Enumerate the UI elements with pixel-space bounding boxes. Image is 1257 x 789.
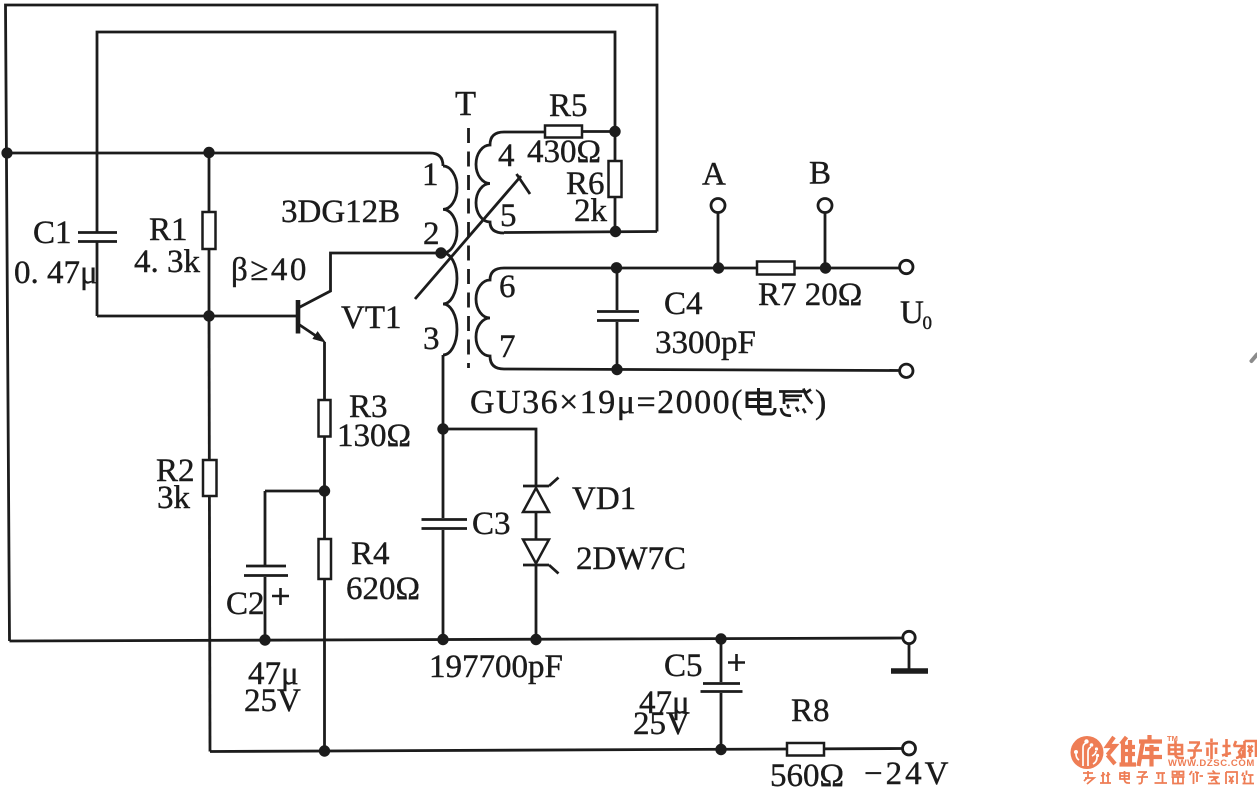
scan speck at right edge (1252, 355, 1257, 362)
watermark char wei (1108, 737, 1137, 766)
resistor R4 (319, 539, 332, 579)
wire: C2 vertical (264, 491, 267, 641)
label C5 plus (728, 654, 745, 671)
node: A on output rail (713, 262, 724, 273)
svg-text:3DG12B: 3DG12B (281, 194, 400, 230)
svg-text:WWW.DZSC.COM: WWW.DZSC.COM (1168, 758, 1255, 769)
wire: R2 branch down to lower rail (209, 316, 210, 752)
node: winding tap 2 (435, 247, 446, 258)
resistor R1 (203, 212, 216, 249)
svg-text:3: 3 (423, 321, 440, 357)
node: R6 bottom junction (610, 226, 621, 237)
capacitor C4 (597, 312, 639, 321)
svg-text:620Ω: 620Ω (346, 571, 420, 607)
node: R3/R4/C2 junction (319, 485, 330, 496)
svg-text:130Ω: 130Ω (337, 418, 411, 454)
svg-text:C4: C4 (664, 286, 703, 322)
resistor R7 (757, 262, 795, 275)
transformer T adjustment arrow (415, 174, 530, 299)
node: zener bottom on ground rail (530, 634, 541, 645)
svg-text:VD1: VD1 (572, 481, 636, 517)
wire: zener mid and bottom segments (535, 512, 538, 640)
wire: R1 branch (208, 153, 211, 317)
terminal: -24V (903, 742, 916, 755)
node: C4 bottom on output rail (611, 364, 622, 375)
svg-text:TM: TM (1167, 734, 1178, 743)
wire: terminal B stub (824, 213, 827, 268)
zener diode VD1 upper (cathode up) (523, 478, 559, 513)
svg-text:T: T (455, 85, 476, 123)
zener diode VD1 lower (cathode down) (523, 540, 559, 574)
svg-text:R5: R5 (549, 88, 588, 124)
wire: base line (97, 315, 296, 318)
svg-text:560Ω: 560Ω (770, 758, 844, 789)
svg-text:β≥40: β≥40 (231, 252, 309, 288)
svg-text:C3: C3 (472, 506, 511, 542)
wire: zener branch top (443, 429, 536, 486)
terminal: ground (891, 631, 928, 671)
svg-text:R7 20Ω: R7 20Ω (758, 277, 862, 313)
svg-text:3k: 3k (157, 480, 191, 516)
wire: C2 branch horizontal (265, 490, 325, 493)
wire: winding 5 line to outer box right edge (504, 232, 657, 233)
terminal U0 top (900, 260, 913, 273)
svg-text:25V: 25V (633, 706, 690, 742)
node: B on output rail (820, 262, 831, 273)
svg-text:R4: R4 (351, 536, 390, 572)
svg-text:B: B (809, 156, 831, 192)
wire: R5 row (leads and entry) (504, 130, 615, 133)
resistor R3 (319, 400, 331, 437)
node: ground rail / left edge junction (1, 147, 12, 158)
node: R5/R6 junction (609, 126, 620, 137)
svg-text:−24V: −24V (864, 756, 951, 789)
wire: emitter column through R3/R4 to lower rail (323, 342, 326, 751)
watermark text dianzishichangwang (1169, 739, 1256, 760)
transformer T secondary winding 6-7 (476, 268, 504, 369)
wire: output top rail (A/B/R7 row) (504, 267, 900, 270)
svg-text:R1: R1 (149, 212, 188, 248)
watermark slogan chinese (1083, 771, 1254, 785)
svg-text:C5: C5 (664, 648, 703, 684)
wire: winding 3 / C3 column (442, 355, 445, 640)
svg-text:): ) (815, 384, 826, 421)
resistor R2 (203, 460, 217, 496)
transformer T secondary winding 4-5 (476, 132, 504, 233)
node: emitter column on lower rail (319, 745, 330, 756)
wire: output bottom rail (504, 369, 900, 371)
svg-text:2k: 2k (574, 193, 608, 229)
node: C5 bottom on lower rail (715, 744, 726, 755)
svg-text:197700pF: 197700pF (429, 649, 563, 685)
svg-text:25V: 25V (244, 683, 301, 719)
wire: top rail from left edge to winding 1 (6, 153, 443, 166)
label inductance chinese char dian (747, 388, 775, 414)
watermark logo circle icon (1071, 736, 1104, 769)
wire: terminal A stub (717, 213, 720, 268)
svg-text:5: 5 (500, 198, 517, 234)
resistor R6 (609, 161, 622, 197)
capacitor C1 (78, 233, 117, 242)
terminal U0 bottom (900, 364, 913, 377)
wire: outer loop (left edge, top edge, right edge down to R6 line) (6, 5, 658, 641)
svg-text:4. 3k: 4. 3k (134, 244, 201, 280)
svg-text:0. 47μ: 0. 47μ (14, 255, 98, 291)
terminal B (818, 199, 832, 213)
resistor R5 (545, 126, 582, 138)
node: winding3/zener branch junction (437, 423, 448, 434)
wire: C5 vertical (720, 640, 723, 750)
capacitor C3 (422, 520, 468, 529)
svg-text:R8: R8 (791, 693, 830, 729)
node: R1 bottom / base junction (203, 310, 214, 321)
label C2 plus (272, 588, 289, 605)
watermark char ku (1139, 735, 1163, 767)
capacitor C5 (electrolytic) (703, 682, 740, 685)
svg-text:2: 2 (423, 216, 440, 252)
transformer T core (dashed) (467, 128, 470, 368)
svg-text:7: 7 (499, 329, 516, 365)
wire: C1 lower stub (96, 242, 99, 316)
svg-text:3300pF: 3300pF (655, 325, 756, 361)
wire: lower supply rail (210, 749, 903, 752)
svg-text:2DW7C: 2DW7C (576, 541, 686, 577)
transistor VT1 (298, 253, 438, 343)
svg-text:C2: C2 (226, 586, 265, 622)
node: C4 top on output rail (611, 262, 622, 273)
wire: inner feedback box (C1 top stub, top edge, right drop to R5/R6 node) (97, 32, 615, 232)
svg-text:U: U (900, 295, 924, 331)
svg-text:A: A (702, 157, 726, 193)
transformer T primary winding 1-2-3 (443, 166, 457, 355)
node: R1 top on rail (203, 147, 214, 158)
svg-text:430Ω: 430Ω (527, 134, 601, 170)
wire: ground rail (10, 638, 903, 641)
node: C2 on ground rail (259, 634, 270, 645)
terminal A (711, 199, 725, 213)
svg-text:4: 4 (498, 138, 515, 174)
svg-text:VT1: VT1 (341, 300, 402, 336)
capacitor C2 (electrolytic) (246, 565, 286, 568)
svg-text:GU36×19μ=2000(: GU36×19μ=2000( (470, 384, 744, 421)
resistor R8 (787, 743, 824, 756)
svg-text:6: 6 (499, 269, 516, 305)
node: C5 top on ground rail (715, 633, 726, 644)
svg-text:0: 0 (923, 313, 933, 334)
node: C3 bottom on ground rail (437, 634, 448, 645)
wire: C4 vertical (616, 268, 619, 370)
label inductance chinese char gan (779, 389, 813, 416)
svg-text:C1: C1 (33, 215, 72, 251)
svg-text:1: 1 (422, 157, 439, 193)
wire: R6 vertical (614, 132, 617, 232)
